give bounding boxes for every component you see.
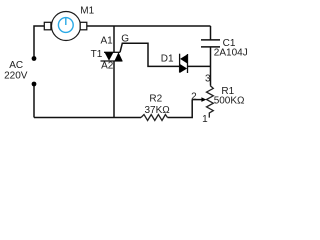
svg-text:T1: T1 xyxy=(91,49,103,60)
svg-text:M1: M1 xyxy=(80,6,94,17)
wire right rail upper (to C1 top plate) xyxy=(210,26,212,40)
potentiometer R1 xyxy=(207,86,214,118)
diac D1 xyxy=(180,54,188,73)
wire R2 right lead to wiper corner xyxy=(168,100,193,118)
wire wiper horizontal xyxy=(192,99,202,101)
wire right rail lower (C1 bottom to R1 top, through diac node) xyxy=(210,47,212,86)
resistor R2 xyxy=(141,115,168,121)
svg-text:AC: AC xyxy=(9,60,23,71)
node AC top dot xyxy=(32,56,37,61)
wire triac A2 vertical xyxy=(113,61,115,118)
svg-text:500KΩ: 500KΩ xyxy=(214,95,245,106)
triac T1 xyxy=(101,52,123,61)
svg-text:R2: R2 xyxy=(149,94,162,105)
capacitor C1 xyxy=(201,40,220,47)
svg-text:A2: A2 xyxy=(101,61,114,72)
wire gate to D1 xyxy=(120,43,180,66)
svg-text:A1: A1 xyxy=(101,36,114,47)
wiper arrowhead of R1 xyxy=(201,97,206,102)
wire D1 to right rail xyxy=(188,65,211,67)
wire AC lower vertical xyxy=(33,84,35,118)
svg-text:220V: 220V xyxy=(4,71,28,82)
svg-text:1: 1 xyxy=(202,114,208,125)
svg-text:37KΩ: 37KΩ xyxy=(145,105,171,116)
svg-text:D1: D1 xyxy=(161,54,174,65)
svg-text:2: 2 xyxy=(191,91,197,102)
wire triac A1 vertical xyxy=(113,26,115,52)
node AC bottom dot xyxy=(32,82,37,87)
wire top-left corner to motor xyxy=(34,26,45,59)
svg-text:3: 3 xyxy=(205,74,211,85)
svg-text:2A104J: 2A104J xyxy=(214,47,248,58)
motor M1 xyxy=(44,12,86,41)
svg-text:G: G xyxy=(121,34,129,45)
wire motor right to top-right corner xyxy=(87,25,211,27)
wire bottom rail xyxy=(34,117,141,119)
